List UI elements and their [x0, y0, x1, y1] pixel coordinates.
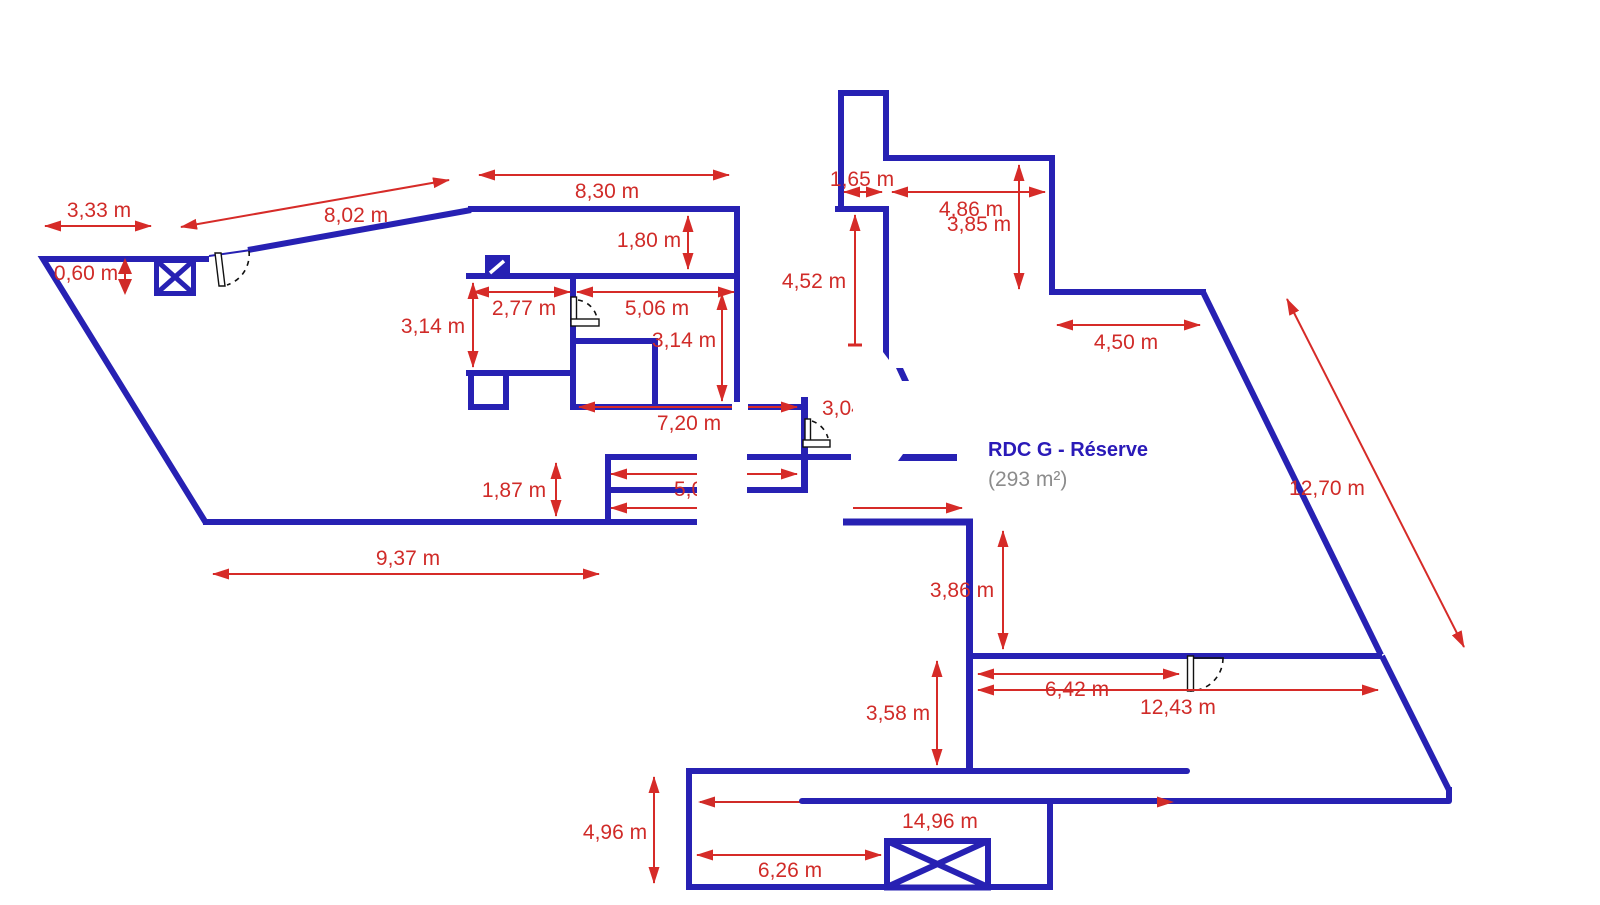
wall x886 vertical with cut — [883, 206, 889, 360]
wall horizontal y656 — [967, 653, 1382, 659]
svg-text:3,85 m: 3,85 m — [947, 213, 1011, 236]
dim 12,70 diagonal — [1287, 299, 1464, 647]
wall small square left — [468, 370, 474, 407]
wall chimney top — [841, 90, 889, 96]
dim 9,37 — [213, 573, 599, 575]
wall bottom y887 — [686, 884, 1053, 890]
dim 3,85 — [1018, 165, 1020, 289]
dim 1,65 — [844, 191, 882, 193]
wall diagonal right upper — [1203, 292, 1381, 655]
wall top right horizontal y292 — [1052, 289, 1206, 295]
dimension labels — [54, 168, 1365, 882]
dim 5,06 — [577, 291, 734, 293]
svg-text:2,77 m: 2,77 m — [492, 297, 556, 320]
wall dash y457 b — [747, 454, 851, 460]
svg-text:3,04 m: 3,04 m — [822, 397, 886, 420]
wall bottom-left vertical x689 — [686, 768, 692, 890]
svg-text:3,33 m: 3,33 m — [67, 199, 131, 222]
dim 1,80 — [687, 216, 689, 269]
dimension arrows — [45, 165, 1464, 883]
svg-text:9,37 m: 9,37 m — [376, 547, 440, 570]
wall right vertical of top room — [734, 206, 740, 402]
svg-text:6,26 m: 6,26 m — [758, 859, 822, 882]
svg-text:RDC G - Réserve: RDC G - Réserve — [988, 439, 1148, 461]
svg-text:12,43 m: 12,43 m — [1140, 696, 1216, 719]
dim 3,14 right — [721, 294, 723, 401]
dim 8,02 diagonal — [181, 180, 449, 227]
svg-text:0,60 m: 0,60 m — [54, 262, 118, 285]
wall bottom long y522 a — [203, 519, 697, 525]
dim 8,30 — [479, 174, 729, 176]
svg-text:7,20 m: 7,20 m — [657, 412, 721, 435]
wall inner vertical x655 — [652, 338, 658, 410]
svg-text:8,02 m: 8,02 m — [324, 204, 388, 227]
dim 4,52 — [854, 215, 856, 345]
dim 4,86 — [892, 191, 1045, 193]
wall chimney right vertical — [883, 93, 889, 161]
svg-text:4,96 m: 4,96 m — [583, 821, 647, 844]
wall inner vertical x573 — [570, 273, 576, 410]
dim 0,60 — [124, 262, 126, 291]
svg-text:12,70 m: 12,70 m — [1289, 477, 1365, 500]
svg-text:(293 m²): (293 m²) — [988, 468, 1067, 491]
wall 7,20 segment b — [748, 404, 801, 410]
wall y490 a — [605, 487, 697, 493]
wall horizontal y158 — [886, 155, 1055, 161]
wall diagonal fragment — [896, 368, 909, 381]
svg-text:1,65 m: 1,65 m — [830, 168, 894, 191]
dim 1,87 — [555, 463, 557, 516]
svg-text:5,06 m: 5,06 m — [625, 297, 689, 320]
dim 3,58 — [936, 661, 938, 765]
window box with white slash — [485, 255, 510, 279]
dim 3,33 — [45, 225, 151, 227]
dim hidden lower — [611, 507, 697, 509]
wall chimney left vertical — [838, 90, 844, 211]
dim 6,42 — [978, 673, 1179, 675]
door D1 on top-left diagonal wall — [215, 251, 249, 286]
dim 7,20 — [579, 406, 732, 408]
dim 12,43 — [978, 689, 1378, 691]
dim 0,60 arrowheads — [118, 258, 132, 295]
svg-text:3,58 m: 3,58 m — [866, 702, 930, 725]
wall vertical x1052 — [1049, 158, 1055, 295]
wall bottom long y522 b + corner down — [843, 522, 970, 771]
wall stub x804 — [801, 397, 808, 493]
wall chimney bottom tick — [835, 206, 886, 212]
wall small square right — [503, 370, 509, 410]
wall inner horizontal y341 — [570, 338, 658, 344]
dim 6,26 — [697, 854, 881, 856]
svg-text:3,86 m: 3,86 m — [930, 579, 994, 602]
door D4 on wall y656 — [1188, 656, 1225, 691]
svg-text:8,30 m: 8,30 m — [575, 180, 639, 203]
svg-text:14,96 m: 14,96 m — [902, 810, 978, 833]
wall dash y457 a — [605, 454, 697, 460]
svg-text:3,14 m: 3,14 m — [401, 315, 465, 338]
door D2 on wall x573 — [571, 297, 599, 326]
svg-text:4,52 m: 4,52 m — [782, 270, 846, 293]
dim 4,96 — [653, 777, 655, 883]
dim 5,06 lower — [611, 473, 697, 475]
svg-text:5,06 m: 5,06 m — [674, 478, 738, 501]
wall bottom y801 — [802, 798, 1449, 804]
dim 2,77 — [473, 291, 570, 293]
wall 7,20 segment a — [573, 404, 732, 410]
wall second horizontal — [466, 273, 740, 279]
svg-text:4,50 m: 4,50 m — [1094, 331, 1158, 354]
wall dash y457 c slanted — [898, 454, 957, 461]
wall small square bottom — [468, 404, 509, 410]
X-box bottom — [887, 841, 988, 888]
wall diagonal 8,02 — [248, 210, 471, 250]
wire — [209, 250, 251, 256]
door D3 on wall x804 — [803, 419, 830, 447]
wall left box vertical x608 — [605, 454, 611, 522]
svg-text:1,87 m: 1,87 m — [482, 479, 546, 502]
wall bottom y771 stub — [689, 768, 1187, 774]
svg-text:6,42 m: 6,42 m — [1045, 678, 1109, 701]
dim 14,96 line (under wall) — [700, 801, 1172, 803]
svg-text:3,14 m: 3,14 m — [652, 329, 716, 352]
wall y490 b — [747, 487, 808, 493]
wall corner vertical x1449 — [1446, 787, 1452, 801]
wall horizontal y373 — [466, 370, 573, 376]
wall top-left horizontal with left corner and long diagonal — [43, 259, 209, 523]
dim 3,14 left — [472, 283, 474, 367]
dim 3,86 — [1002, 531, 1004, 649]
dim 14,96 arrowheads — [698, 797, 1174, 808]
dim 4,50 — [1057, 324, 1200, 326]
svg-text:1,80 m: 1,80 m — [617, 229, 681, 252]
wall bottom right vertical x1050 — [1047, 801, 1053, 890]
wall top horizontal 8,30 — [468, 206, 737, 212]
X-box top-left — [157, 261, 194, 294]
wall diagonal lower right — [1382, 656, 1449, 790]
